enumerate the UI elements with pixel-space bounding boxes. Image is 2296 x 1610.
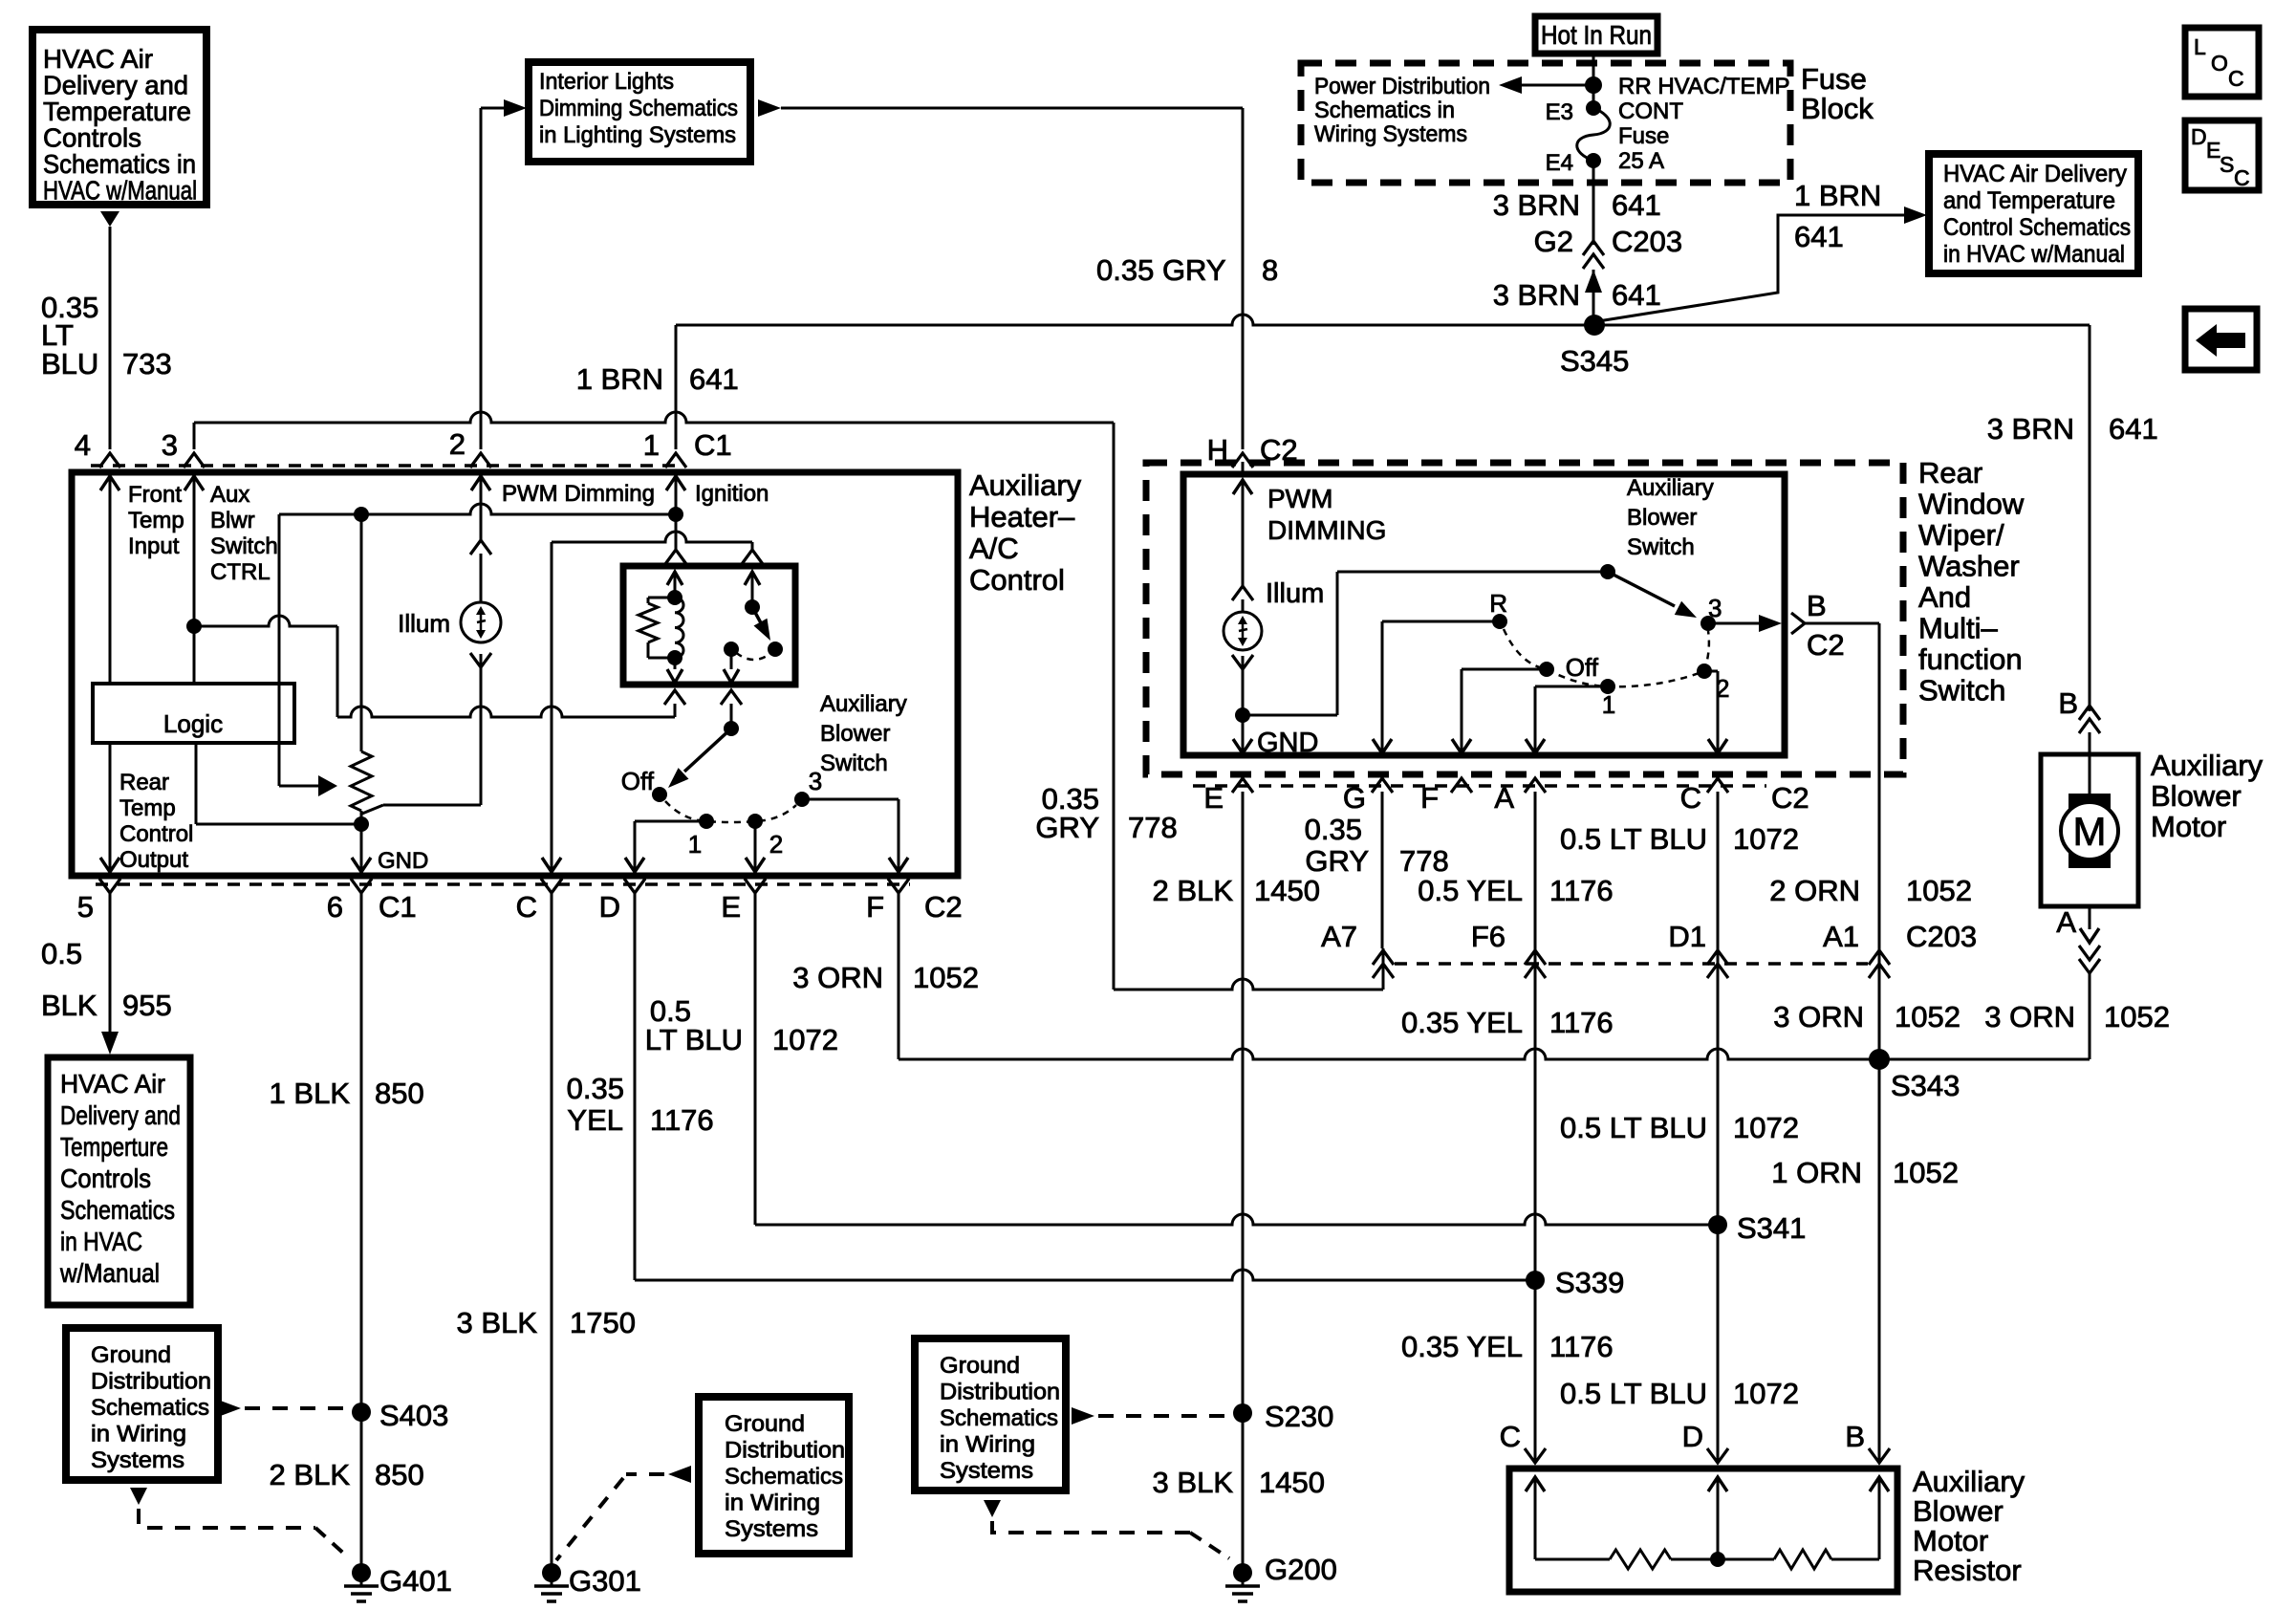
rear switch blade pivot [1600,564,1615,579]
svg-text:Wiper/: Wiper/ [1918,518,2004,552]
svg-text:in Wiring: in Wiring [940,1432,1035,1458]
svg-text:in Lighting Systems: in Lighting Systems [539,122,736,148]
svg-text:Controls: Controls [60,1164,151,1193]
svg-text:3 BLK: 3 BLK [1153,1466,1234,1499]
svg-text:Auxiliary: Auxiliary [1627,475,1714,501]
wire contact 2 to pin E [754,821,757,876]
svg-text:0.5 LT BLU: 0.5 LT BLU [1560,1111,1707,1144]
svg-text:2: 2 [769,830,783,859]
svg-text:O: O [2211,51,2228,76]
svg-text:3 BLK: 3 BLK [457,1306,538,1339]
svg-text:Controls: Controls [43,123,141,153]
svg-text:0.35: 0.35 [567,1072,624,1105]
svg-text:Distribution: Distribution [940,1380,1060,1405]
svg-text:Motor: Motor [1913,1524,1988,1557]
svg-text:1176: 1176 [1549,874,1614,907]
junction dot at rheostat bottom / GND [354,816,369,832]
svg-text:1052: 1052 [1893,1156,1959,1189]
svg-text:E3: E3 [1546,99,1573,125]
relay coil [675,598,683,658]
svg-text:Systems: Systems [725,1516,818,1542]
svg-text:Motor: Motor [2151,810,2226,843]
svg-text:in Wiring: in Wiring [91,1422,186,1447]
inner box: auxiliary blower switch (rear) [1183,474,1785,755]
connector C203 pin G2 (double chevron) [1583,241,1604,255]
wire 3 BRN 641 below fuse [1592,161,1595,245]
svg-text:CTRL: CTRL [210,559,271,585]
pin D1 C203 [1707,950,1728,965]
pin C of C2 [541,879,562,893]
svg-text:G200: G200 [1265,1553,1337,1586]
svg-text:Control Schematics: Control Schematics [1943,214,2131,241]
svg-text:B: B [1845,1420,1865,1453]
resistor element 2 [1774,1550,1831,1569]
wire contact R to pin G [1382,620,1500,623]
svg-text:D: D [2191,124,2207,149]
svg-text:Rear: Rear [119,770,169,795]
wire 0.5 BLK 955 from pin 5 [109,893,112,1033]
svg-text:Delivery and: Delivery and [60,1100,181,1130]
connector C1/C2 dashed line (bottom row) [96,882,910,886]
svg-text:733: 733 [122,347,172,381]
box: Interior Lights Dimming Schematics in Lighting Systems [529,62,750,162]
svg-text:D: D [1682,1420,1703,1453]
arrow down from top-left reference box [100,211,119,227]
svg-text:F: F [866,890,884,924]
svg-text:3 ORN: 3 ORN [792,961,883,994]
svg-text:1176: 1176 [650,1103,714,1137]
pin D resistor [1707,1448,1728,1463]
box: Auxiliary Blower Motor Resistor [1509,1469,1897,1592]
svg-text:0.35 GRY: 0.35 GRY [1096,253,1226,287]
svg-text:D: D [599,890,620,924]
svg-text:w/Manual: w/Manual [59,1258,160,1288]
svg-text:A/C: A/C [969,532,1019,565]
wire PWM dimming to interior lights box (pin 2 up) [480,108,483,449]
svg-text:1: 1 [643,428,660,462]
wire 2 ORN from B C2 down to A1 [1805,622,1879,625]
svg-text:778: 778 [1128,811,1178,844]
svg-text:Temp: Temp [119,795,176,821]
svg-text:1176: 1176 [1549,1006,1614,1039]
svg-text:Switch: Switch [1918,674,2005,707]
pin 2 of C1 [470,453,491,468]
wire gnd junction to switch common [1243,714,1337,717]
pin 2 arrow PWM Dimming [471,476,490,490]
box: Ground Distribution Schematics (right) [915,1338,1066,1490]
svg-text:B: B [1807,589,1827,622]
svg-text:M: M [2073,809,2107,854]
svg-text:2 BLK: 2 BLK [270,1458,351,1491]
relay resistor (parallel) [648,597,675,599]
ground G401 [352,1563,371,1582]
auxiliary blower switch blade arrow [684,729,731,772]
svg-text:Ignition: Ignition [695,481,769,507]
fuse RR HVAC/TEMP CONT 25 A [1586,100,1601,116]
svg-text:C203: C203 [1906,920,1977,953]
svg-text:Rear: Rear [1918,456,1982,490]
svg-text:Switch: Switch [210,533,278,559]
svg-text:R: R [1489,589,1507,618]
wire from Hot In Run to fuse [1592,54,1595,108]
svg-text:C1: C1 [379,890,417,924]
svg-text:A1: A1 [1823,920,1859,953]
svg-text:1 BLK: 1 BLK [270,1077,351,1110]
motor symbol M [2061,802,2118,859]
svg-text:0.35 YEL: 0.35 YEL [1401,1330,1523,1363]
svg-text:Ground: Ground [725,1411,805,1437]
svg-text:B: B [2058,686,2078,720]
svg-text:3 BRN: 3 BRN [1493,278,1580,312]
GND label and arrow at pin 6 [352,858,371,872]
svg-text:Logic: Logic [163,709,223,738]
wire relay switch to blower switch pivot [721,690,742,705]
pin B resistor [1869,1448,1890,1463]
connector A of C203 (motor side) [2079,946,2100,960]
svg-text:1052: 1052 [1906,874,1972,907]
rheostat resistor in control head [360,514,363,751]
wire 3 ORN 1052 horizontal bus to S343 and motor A [899,1049,2090,1059]
arrow to power distribution schematics (left) [1516,84,1593,87]
LOC button box [2185,28,2259,97]
wire 0.35 GRY 778 right vertical [1113,423,1116,990]
svg-text:C2: C2 [1807,628,1845,662]
svg-text:1072: 1072 [1733,822,1799,856]
svg-text:HVAC w/Manual: HVAC w/Manual [43,176,197,206]
wire contact Off to pin F [1462,668,1547,671]
pin 4 of C1 [99,453,120,468]
svg-text:C: C [1500,1420,1521,1453]
arrow and dashed lead to S403 [218,1400,241,1417]
svg-text:6: 6 [327,890,343,924]
svg-text:C1: C1 [694,428,732,462]
svg-text:1: 1 [688,830,702,859]
blower switch contacts Off 1 2 3 [652,787,667,802]
svg-text:Window: Window [1918,488,2025,521]
svg-text:Temperature: Temperature [43,97,191,126]
svg-text:S341: S341 [1737,1211,1806,1245]
wire aux blwr switch ctrl to relay coil (lower run) [194,616,337,626]
wire down from y538 to pot wiper [278,514,281,786]
illum lamp symbol [461,602,501,642]
Logic box [93,684,294,743]
svg-text:A7: A7 [1321,920,1357,953]
svg-text:Schematics: Schematics [940,1405,1058,1431]
splice S230 [1233,1403,1252,1423]
pin D of C2 [624,879,645,893]
svg-text:0.35 YEL: 0.35 YEL [1401,1006,1523,1039]
wire 3 BRN 641 main bus from pin1 C1 to auxiliary blower motor [676,315,2090,325]
svg-text:1750: 1750 [570,1306,636,1339]
ground G301 [542,1563,561,1582]
svg-text:Auxiliary: Auxiliary [2151,749,2264,782]
PWM DIMMING feed [1233,480,1252,494]
svg-text:Blower: Blower [820,721,890,747]
svg-text:C: C [1680,781,1701,815]
wire 0.5 LT BLU 1072 pin E to S341 [754,893,757,1225]
junction dot on pin3 wire [186,619,202,634]
pin 4 arrow and Front Temp Input wire [100,476,119,490]
pin A7 C203 [1373,950,1394,965]
wire contact 2 to pin C [1704,670,1718,673]
pin 1 of C1 [665,453,686,468]
svg-text:1 BRN: 1 BRN [576,362,663,396]
svg-text:Wiring Systems: Wiring Systems [1314,121,1467,147]
svg-text:Schematics in: Schematics in [1314,98,1455,123]
svg-text:BLK: BLK [41,989,97,1022]
svg-text:Input: Input [128,533,180,559]
pin F rear [1451,778,1472,793]
pin A rear [1525,778,1546,793]
box: Auxiliary Heater-A/C Control [72,472,958,876]
connector C2 dashed line (rear switch row) [1193,784,1766,788]
svg-text:Washer: Washer [1918,550,2020,583]
wire 0.35 LT BLU 733 (pin 4 column) [109,227,112,449]
wire 0.5 YEL 1176 pin A to F6 [1534,792,1537,1280]
junction dot at rear GND [1235,707,1250,723]
svg-text:Interior Lights: Interior Lights [539,69,674,95]
svg-text:YEL: YEL [567,1103,623,1137]
motor brushes [2069,794,2111,812]
GND arrow (rear switch) [1233,739,1252,753]
svg-text:G401: G401 [379,1564,452,1598]
svg-text:3 ORN: 3 ORN [1773,1000,1864,1033]
svg-text:2 BLK: 2 BLK [1153,874,1234,907]
box: HVAC Air Delivery and Temperture Controls Schematics (bottom left) [48,1057,190,1305]
pin E of C2 [745,879,766,893]
svg-text:850: 850 [375,1458,424,1491]
wire 0.35 GRY 778 pin G [1381,792,1384,948]
svg-text:GRY: GRY [1305,844,1369,878]
arrow down and dashed lead to G200 [984,1500,1001,1517]
svg-text:L: L [2194,34,2206,59]
svg-text:GRY: GRY [1035,811,1099,844]
wire 2 BLK 1450 pin E to S230 and G200 [1242,792,1245,1573]
wire logic bottom to GND junction [195,743,198,824]
svg-text:S345: S345 [1560,344,1629,378]
svg-text:0.35: 0.35 [1305,813,1362,846]
wire logic to pin 5 Rear Temp Control Output [109,743,112,876]
svg-text:C: C [2234,165,2250,190]
svg-text:in Wiring: in Wiring [725,1490,820,1516]
svg-text:Resistor: Resistor [1913,1554,2022,1587]
wire 3 BLK 1750 pin C to G301 [551,893,553,1573]
svg-text:PWM: PWM [1267,484,1332,513]
arrow and dashed lead to S230 [1072,1407,1094,1425]
svg-text:Auxiliary: Auxiliary [1913,1465,2025,1498]
splice S345 [1584,315,1605,336]
svg-text:0.5 LT BLU: 0.5 LT BLU [1560,1377,1707,1410]
svg-text:1450: 1450 [1254,874,1320,907]
svg-text:3: 3 [162,428,178,462]
svg-text:3 BRN: 3 BRN [1493,188,1580,222]
auxiliary blower motor box [2089,732,2091,795]
svg-text:1052: 1052 [2104,1000,2170,1033]
pin G rear [1372,778,1393,793]
svg-text:Blower: Blower [1627,505,1697,531]
pin 3 of C1 [184,453,205,468]
pin F6 C203 [1525,950,1546,965]
svg-text:3 BRN: 3 BRN [1987,412,2074,446]
wire lamp ground to rheostat bottom [383,804,481,807]
svg-text:S230: S230 [1265,1400,1333,1433]
svg-text:CONT: CONT [1618,98,1683,124]
svg-text:1052: 1052 [913,961,979,994]
svg-text:955: 955 [122,989,172,1022]
ground G200 [1233,1563,1252,1582]
svg-text:S: S [2220,152,2234,177]
svg-text:Front: Front [128,482,182,508]
svg-text:641: 641 [689,362,739,396]
wires into resistor pack [1534,1280,1537,1463]
svg-text:Power Distribution: Power Distribution [1314,74,1490,99]
svg-text:0.5 LT BLU: 0.5 LT BLU [1560,822,1707,856]
svg-text:Distribution: Distribution [91,1369,211,1395]
connector C1 dashed line (top row) [91,464,683,468]
svg-text:Schematics: Schematics [91,1395,209,1421]
wire 0.35 GRY 778 to C203 A7 [1114,979,1383,990]
svg-text:0.5: 0.5 [41,937,82,970]
wire motor A to connector C203 pin A [2089,906,2091,929]
svg-text:HVAC Air Delivery: HVAC Air Delivery [1943,161,2127,187]
svg-text:PWM Dimming: PWM Dimming [502,481,655,507]
svg-text:1052: 1052 [1895,1000,1960,1033]
svg-text:Schematics in: Schematics in [43,149,196,179]
svg-text:1176: 1176 [1549,1330,1614,1363]
back arrow button box [2185,309,2257,370]
svg-text:Switch: Switch [820,751,888,776]
splice S341 [1708,1215,1727,1234]
wire contact 1 to pin D [635,820,706,823]
svg-text:Output: Output [119,847,188,873]
svg-text:Systems: Systems [940,1458,1033,1484]
wire contact 3 to output B [1708,622,1768,625]
svg-text:RR HVAC/TEMP: RR HVAC/TEMP [1618,74,1790,99]
svg-text:Control: Control [119,821,193,847]
svg-text:Auxiliary: Auxiliary [820,691,907,717]
svg-text:Temp: Temp [128,508,184,533]
svg-text:1072: 1072 [772,1023,838,1056]
illum lamp (rear switch) [1232,586,1253,600]
svg-text:1: 1 [1602,690,1615,719]
junction dot on ignition wire [668,507,683,522]
svg-text:in HVAC: in HVAC [60,1227,142,1256]
svg-text:Multi–: Multi– [1918,612,1998,645]
svg-text:Systems: Systems [91,1447,184,1473]
wire 0.35 GRY 778 from pin 3 across the top [193,423,196,449]
svg-text:778: 778 [1399,844,1449,878]
wiper arrow to rheostat [318,775,337,796]
svg-text:641: 641 [1612,188,1661,222]
dashed box: Rear Window Wiper/Washer And Multi-function Switch [1146,463,1903,774]
svg-text:Control: Control [969,563,1065,597]
pin C resistor [1525,1448,1546,1463]
svg-text:Blower: Blower [2151,779,2242,813]
dashed box: Fuse Block [1301,63,1790,183]
svg-text:0.5 YEL: 0.5 YEL [1418,874,1523,907]
svg-text:G2: G2 [1534,225,1573,258]
svg-text:Illum: Illum [1266,578,1324,609]
svg-text:Heater–: Heater– [969,500,1075,533]
svg-text:Schematics: Schematics [725,1464,843,1490]
svg-text:8: 8 [1262,253,1278,287]
svg-text:Off: Off [1566,653,1599,682]
wire contact 3 to pin F [802,798,899,801]
svg-text:Aux: Aux [210,482,249,508]
svg-text:641: 641 [1612,278,1661,312]
junction dot at fuse feed [1585,76,1602,94]
svg-text:Temperture: Temperture [60,1132,168,1162]
connector B C2 of rear switch [1791,613,1805,634]
wire contact 1 to pin A [1535,685,1608,688]
wire motor A to bus corner [2089,973,2091,1059]
connector H C2 (rear window switch) [1232,453,1253,468]
svg-text:C203: C203 [1612,225,1682,258]
arrow up into C203 from S345 wire [1585,270,1602,293]
svg-text:GND: GND [1257,728,1318,758]
pin A1 C203 [1869,950,1890,965]
wire from ignition junction to left [279,504,676,514]
svg-text:Off: Off [621,767,655,795]
svg-text:E: E [721,890,741,924]
svg-text:5: 5 [77,890,94,924]
illum lamp circuit in control head [470,540,491,555]
splice S339 [1526,1271,1545,1290]
svg-text:Blwr: Blwr [210,508,255,533]
svg-text:Illum: Illum [398,609,450,638]
svg-text:641: 641 [2109,412,2158,446]
box: Ground Distribution Schematics (middle) [699,1397,849,1554]
pin C rear [1707,778,1728,793]
svg-text:Distribution: Distribution [725,1438,845,1464]
connector C203 dashed line [1395,962,1868,966]
svg-text:A: A [1494,781,1514,815]
relay coil branch [667,572,682,585]
svg-text:Fuse: Fuse [1618,123,1669,149]
splice S403 [352,1403,371,1422]
svg-text:Delivery and: Delivery and [43,71,188,100]
svg-text:1450: 1450 [1259,1466,1325,1499]
svg-text:Hot In Run: Hot In Run [1541,20,1652,50]
arrow down and dashed lead to G401 [130,1488,147,1505]
connector B of auxiliary blower motor [2079,706,2100,720]
svg-text:and Temperature: and Temperature [1943,187,2115,214]
svg-text:G: G [1343,781,1366,815]
box: Hot In Run [1535,16,1657,54]
pin 5 of C1 [99,879,120,893]
relay box inside control head [623,566,795,685]
pin F of C2 [888,879,909,893]
svg-text:BLU: BLU [41,347,98,381]
svg-text:Fuse: Fuse [1801,62,1867,96]
svg-text:E4: E4 [1546,150,1573,176]
pin 3 arrow and Aux Blwr Switch CTRL wire [184,476,204,490]
svg-text:4: 4 [75,428,91,462]
wire 1 BRN 641 from S345 to HVAC air delivery box [1598,215,1912,321]
svg-text:DIMMING: DIMMING [1267,515,1386,545]
svg-text:850: 850 [375,1077,424,1110]
wire 3 BRN 641 down right side to motor B [2089,325,2091,711]
svg-text:GND: GND [378,848,428,874]
wire 0.35 GRY 8 from interior lights to H C2 [781,107,1243,110]
pin 6 of C1 [351,879,372,893]
svg-text:Auxiliary: Auxiliary [969,468,1082,502]
box: HVAC Air Delivery and Temperature Controls Schematics (top left) [32,30,206,205]
junction dot in resistor pack [1710,1552,1725,1567]
resistor element 1 [1610,1550,1671,1569]
svg-text:F6: F6 [1471,920,1505,953]
svg-text:S339: S339 [1555,1266,1624,1299]
